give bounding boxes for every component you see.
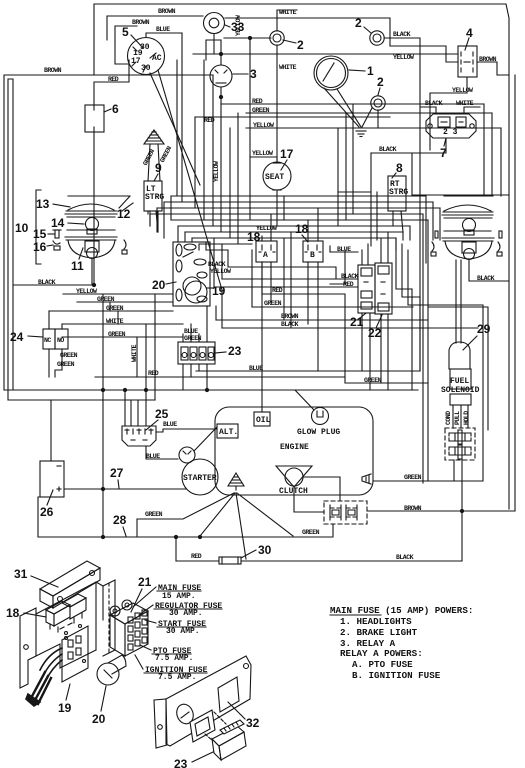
SECTION: bottom-right text <box>330 605 473 681</box>
engine box <box>215 407 373 495</box>
panel plate 32 <box>154 656 251 748</box>
svg-text:STARTER: STARTER <box>183 474 217 483</box>
label 32 <box>228 702 260 730</box>
svg-text:GREEN: GREEN <box>364 377 382 384</box>
wire mesh row3 <box>157 207 440 209</box>
spring 16 <box>53 241 60 250</box>
wire brown from relay4 <box>477 56 509 75</box>
center plate <box>103 580 115 656</box>
svg-text:25: 25 <box>155 407 169 421</box>
label 2a <box>283 38 304 52</box>
wire mesh left verticals <box>150 196 206 250</box>
label ignition fuse <box>135 655 208 682</box>
mounting plate base <box>36 582 103 668</box>
label 3 <box>233 67 257 81</box>
wire red bus y117 <box>195 117 390 124</box>
wire white down from 390 <box>390 46 458 62</box>
wire mesh row8 <box>192 237 396 239</box>
label 19 <box>58 684 72 715</box>
svg-text:3: 3 <box>250 67 257 81</box>
label 9 <box>154 161 162 181</box>
svg-text:32: 32 <box>246 716 260 730</box>
iso connector 19 <box>62 626 88 682</box>
wire fuse25 feeds <box>125 390 138 426</box>
svg-text:24: 24 <box>10 330 24 344</box>
label 20 <box>92 686 106 726</box>
bracket bar 31 <box>40 561 100 608</box>
label 19 <box>207 284 226 298</box>
wire right enclosure <box>428 305 483 481</box>
wire mesh row9 <box>199 243 252 245</box>
svg-text:YELLOW: YELLOW <box>452 87 473 94</box>
svg-text:1. HEADLIGHTS: 1. HEADLIGHTS <box>340 616 412 627</box>
svg-text:YELLOW: YELLOW <box>213 161 220 182</box>
label 14 <box>51 216 84 230</box>
wire 28 to bottom <box>175 537 177 561</box>
ground triangle above 9 <box>144 130 164 181</box>
svg-text:RED: RED <box>191 553 202 560</box>
wire white from hourmeter to right <box>225 18 390 46</box>
label 29 <box>463 322 491 350</box>
wire bus y390 <box>4 389 418 391</box>
wire red to 21 <box>214 281 358 288</box>
wire lamp top line <box>68 195 130 197</box>
svg-text:NO: NO <box>57 337 64 344</box>
wire top feed verticals <box>177 33 271 244</box>
svg-text:YELLOW: YELLOW <box>210 268 231 275</box>
label blue green above 23 <box>184 328 202 342</box>
svg-text:2: 2 <box>355 16 362 30</box>
label 18A <box>247 225 277 244</box>
svg-text:17: 17 <box>280 147 294 161</box>
svg-text:BLACK: BLACK <box>38 279 56 286</box>
wire black row 328 <box>222 290 478 328</box>
wire yellow seat <box>250 150 277 157</box>
svg-text:14: 14 <box>51 216 65 230</box>
wire white row324 <box>62 318 183 325</box>
svg-text:29: 29 <box>477 322 491 336</box>
svg-text:STRG: STRG <box>145 193 164 202</box>
svg-text:ALT.: ALT. <box>219 428 238 437</box>
svg-text:27: 27 <box>110 466 124 480</box>
svg-text:20: 20 <box>152 278 166 292</box>
iso fuse block 21 <box>110 600 148 656</box>
label 22 <box>368 315 382 340</box>
headlight circle 2b <box>370 31 384 45</box>
svg-text:GLOW PLUG: GLOW PLUG <box>297 428 340 437</box>
SECTION: bottom isometric <box>6 561 260 768</box>
svg-text:28: 28 <box>113 513 127 527</box>
legend line 1 <box>330 605 473 616</box>
svg-text:BROWN: BROWN <box>132 19 150 26</box>
wire red row 294 <box>262 262 345 377</box>
wire circle3 vertical <box>206 40 223 104</box>
wire staircase left <box>214 232 291 328</box>
svg-text:RED: RED <box>148 370 159 377</box>
label 4 <box>465 26 473 50</box>
svg-text:BLUE: BLUE <box>146 453 160 460</box>
wire yellow bus y128 <box>246 122 501 129</box>
connector 22 <box>375 263 392 314</box>
svg-text:7.5 AMP.: 7.5 AMP. <box>158 673 196 682</box>
engine right ground <box>362 474 371 484</box>
connector 23 <box>178 342 215 364</box>
svg-text:FUEL: FUEL <box>450 377 469 386</box>
wire bundle from 19 <box>26 648 62 706</box>
wire brown solenoid bottom <box>367 505 515 512</box>
wire right headlight black <box>469 259 509 282</box>
svg-text:B. IGNITION FUSE: B. IGNITION FUSE <box>352 670 441 681</box>
wire key switch left stub <box>115 42 128 64</box>
wire gauge grounds <box>324 88 372 127</box>
relay box 4 <box>458 46 477 77</box>
wire red into key switch <box>94 60 129 105</box>
svg-text:YELLOW: YELLOW <box>256 225 277 232</box>
wire starter diag <box>194 427 217 451</box>
wire blue bus y371 <box>196 365 420 372</box>
label 27 <box>110 466 124 488</box>
svg-text:10: 10 <box>15 221 29 235</box>
svg-text:GREEN: GREEN <box>106 305 124 312</box>
svg-text:BROWN: BROWN <box>158 8 176 15</box>
label 30 <box>241 543 272 558</box>
wire brown row 320 <box>216 306 428 320</box>
svg-text:YELLOW: YELLOW <box>76 288 97 295</box>
svg-text:GREEN: GREEN <box>60 352 78 359</box>
wire oil feed <box>261 371 263 412</box>
svg-text:YELLOW: YELLOW <box>252 150 273 157</box>
headlight circle 2a <box>270 31 284 45</box>
svg-text:7.5 AMP.: 7.5 AMP. <box>155 654 193 663</box>
svg-text:18: 18 <box>6 606 20 620</box>
svg-text:BLACK: BLACK <box>477 275 495 282</box>
gauge 1 <box>314 56 348 90</box>
svg-text:26: 26 <box>40 505 54 519</box>
right headlight bulb <box>444 219 491 236</box>
svg-text:30: 30 <box>258 543 272 557</box>
wire solenoid drops <box>453 405 468 428</box>
svg-text:ENGINE: ENGINE <box>280 443 309 452</box>
svg-text:19: 19 <box>58 701 72 715</box>
svg-text:BLACK: BLACK <box>396 554 414 561</box>
wire mesh row7 <box>185 231 403 233</box>
clutch dashed connector <box>324 501 367 524</box>
wire blue from key switch top <box>146 26 182 37</box>
SECTION: top components <box>85 9 509 290</box>
label 16 <box>33 240 53 254</box>
wire left drops to rows <box>103 294 155 537</box>
svg-text:BROWN: BROWN <box>44 67 62 74</box>
iso relay 18 left <box>46 601 70 632</box>
label 28 <box>113 513 127 536</box>
relay 18A <box>256 241 277 262</box>
label 31 <box>14 567 58 587</box>
rt strg lamp 8 <box>388 176 408 232</box>
oil switch <box>254 412 271 426</box>
wire white circle2a <box>277 9 297 31</box>
svg-text:YELLOW: YELLOW <box>235 15 242 36</box>
svg-text:PULL: PULL <box>454 411 461 425</box>
wire right staircase <box>396 238 428 390</box>
wire seat drop <box>277 196 284 226</box>
svg-text:SEAT: SEAT <box>265 173 284 182</box>
switch 24 <box>43 311 68 377</box>
svg-text:31: 31 <box>14 567 28 581</box>
wire black to 21 <box>222 273 359 280</box>
svg-text:WHITE: WHITE <box>279 64 297 71</box>
svg-text:2. BRAKE LIGHT: 2. BRAKE LIGHT <box>340 627 418 638</box>
label 11 <box>71 248 84 273</box>
svg-text:RED: RED <box>343 281 354 288</box>
svg-text:BLACK: BLACK <box>341 273 359 280</box>
label regulator fuse <box>139 602 222 618</box>
svg-text:21: 21 <box>138 575 152 589</box>
key switch 5 <box>128 38 165 75</box>
svg-text:RELAY A POWERS:: RELAY A POWERS: <box>340 648 423 659</box>
label 18B <box>295 222 309 242</box>
label 23 iso <box>174 752 213 768</box>
svg-text:RED: RED <box>272 287 283 294</box>
wire left border outer <box>4 75 107 390</box>
labels cond pull hold <box>445 411 470 425</box>
engine center ground <box>228 473 244 490</box>
svg-text:RED: RED <box>252 98 263 105</box>
label 18 iso <box>6 606 46 620</box>
wire black to regulator <box>420 100 443 114</box>
wire row 267 <box>228 250 336 279</box>
wire blue to 21 <box>330 246 358 253</box>
wire green row302 <box>77 296 173 303</box>
SECTION: lower schematic <box>4 75 515 564</box>
wire hourmeter down <box>213 34 215 54</box>
wire mesh row4 <box>150 213 423 215</box>
label 2b <box>355 16 371 33</box>
svg-text:WHITE: WHITE <box>131 344 138 362</box>
fuse 6 <box>85 105 104 132</box>
wire mesh row1 <box>171 195 426 197</box>
wire yellow below relay4 <box>430 77 473 150</box>
wire 27 battery to starter <box>64 487 186 490</box>
svg-text:23: 23 <box>174 757 188 768</box>
svg-text:11: 11 <box>71 259 84 273</box>
svg-text:BLUE: BLUE <box>249 365 263 372</box>
wire 28 battery ground <box>38 497 310 539</box>
label 1 <box>349 64 374 78</box>
label 17 <box>280 147 294 170</box>
svg-text:YELLOW: YELLOW <box>253 122 274 129</box>
svg-text:MAIN FUSE (15 AMP) POWERS:: MAIN FUSE (15 AMP) POWERS: <box>330 605 473 616</box>
svg-text:GREEN: GREEN <box>145 511 163 518</box>
svg-text:HOLD: HOLD <box>463 411 470 425</box>
wire clutch to connector <box>294 477 340 512</box>
fuel solenoid 29 <box>449 260 471 389</box>
wire green row311 <box>49 305 173 312</box>
left headlight bulb 14 <box>67 218 115 235</box>
label fuel solenoid <box>441 377 480 395</box>
wire white to regulator <box>456 100 480 114</box>
alternator <box>217 424 238 438</box>
svg-text:2 3: 2 3 <box>443 128 458 137</box>
battery 26 <box>40 461 64 497</box>
left bracket plate <box>20 608 36 688</box>
wire 23 tops <box>183 306 207 342</box>
svg-text:GREEN: GREEN <box>97 296 115 303</box>
svg-text:WHITE: WHITE <box>279 9 297 16</box>
left reflector 11 <box>65 237 127 259</box>
junction dots bus <box>101 388 208 391</box>
wire green clutch <box>302 524 333 537</box>
wire brown bus left <box>94 74 213 76</box>
wire mesh row6 <box>178 225 410 227</box>
relay 18B <box>303 241 323 262</box>
svg-text:BLACK: BLACK <box>379 146 397 153</box>
connector 21 <box>358 265 375 313</box>
wire bus y400 <box>8 399 155 401</box>
svg-text:YELLOW: YELLOW <box>393 54 414 61</box>
svg-text:BLUE: BLUE <box>163 421 177 428</box>
lt strg lamp 9 <box>144 181 164 232</box>
hour meter 33 <box>204 13 225 34</box>
svg-text:18: 18 <box>247 230 261 244</box>
SECTION: schematic borders <box>4 4 509 509</box>
svg-text:BLACK: BLACK <box>281 321 299 328</box>
wire glow plug feed <box>295 390 314 410</box>
iso relay 18 right <box>62 594 86 623</box>
svg-text:23: 23 <box>228 344 242 358</box>
wire mesh row5 <box>171 219 428 221</box>
svg-text:2: 2 <box>377 75 384 89</box>
label start fuse <box>145 620 206 636</box>
svg-text:13: 13 <box>36 197 50 211</box>
wire 21 22 tops <box>362 232 388 265</box>
bulb holder 15 <box>53 230 61 238</box>
clutch <box>276 466 312 496</box>
wire ground fan <box>137 493 293 559</box>
left headlight bracket 10 <box>36 190 41 264</box>
svg-text:2: 2 <box>297 38 304 52</box>
wire second border brown loop <box>107 8 203 40</box>
svg-text:18: 18 <box>295 222 309 236</box>
svg-text:WHITE: WHITE <box>106 318 124 325</box>
label 15 <box>33 227 55 241</box>
wire mesh row10 <box>206 249 228 251</box>
wire key switch diagonal to mesh A <box>150 73 200 185</box>
svg-text:BROWN: BROWN <box>404 505 422 512</box>
glow plug <box>297 408 340 438</box>
label 21 <box>350 313 366 329</box>
wire battery feed <box>50 400 52 461</box>
wire headlight feed line <box>432 194 509 196</box>
label 8 <box>392 161 403 178</box>
label 5 <box>122 25 143 48</box>
regulator 7 <box>426 114 476 138</box>
label 25 <box>146 407 169 430</box>
svg-text:GREEN: GREEN <box>108 331 126 338</box>
svg-text:BROWN: BROWN <box>479 56 497 63</box>
svg-text:8: 8 <box>396 161 403 175</box>
wire yellow row294 <box>63 288 173 295</box>
wire seat down <box>276 194 278 214</box>
label 12 <box>117 196 133 221</box>
wire right mesh verticals <box>338 56 501 483</box>
solenoid dashed connector <box>445 428 475 460</box>
wire key switch diagonal to mesh B <box>158 70 222 290</box>
fuse 30 <box>219 557 241 564</box>
wire fuse6 down <box>93 132 95 285</box>
svg-text:A: A <box>263 251 268 260</box>
wire green engine right <box>373 474 454 481</box>
connector block 19 20 <box>173 242 210 306</box>
SECTION: middle mesh <box>10 33 509 537</box>
wire green bus y383 <box>345 377 428 384</box>
label 2c <box>377 75 384 128</box>
svg-text:15: 15 <box>33 227 47 241</box>
svg-text:RED: RED <box>108 76 119 83</box>
meter circle 3 <box>210 65 232 87</box>
wire bottom black <box>176 553 462 561</box>
wire green row337 <box>62 331 183 338</box>
svg-text:16: 16 <box>33 240 47 254</box>
wire elbow right <box>412 153 432 195</box>
wire 23 bottoms <box>183 364 207 390</box>
svg-text:20: 20 <box>92 712 106 726</box>
wire black circle2b <box>384 31 420 56</box>
svg-text:5: 5 <box>122 25 129 39</box>
seat switch 17 <box>263 159 291 194</box>
brake circle 2c <box>371 96 385 110</box>
wire mesh row2 <box>164 201 433 203</box>
label main fuse <box>133 584 201 607</box>
iso connector 23 <box>205 712 246 760</box>
solenoid terminal box <box>450 394 471 405</box>
svg-text:BLUE: BLUE <box>156 26 170 33</box>
wire red bus y377 <box>95 370 345 377</box>
wire outer top border <box>94 4 509 509</box>
ground under gauge <box>353 128 369 137</box>
svg-text:GREEN: GREEN <box>302 529 320 536</box>
wire 21 22 bottoms <box>362 313 388 390</box>
right headlight top bar <box>444 195 493 197</box>
label 13 <box>36 197 70 211</box>
svg-text:BLUE: BLUE <box>337 246 351 253</box>
svg-text:GREEN: GREEN <box>264 300 282 307</box>
wire brown to key switch <box>115 19 150 42</box>
label pto fuse <box>140 645 193 663</box>
wire blue starter <box>146 446 178 460</box>
wire relay18 drops <box>262 208 318 371</box>
svg-text:GREEN: GREEN <box>404 474 422 481</box>
right reflector <box>431 231 502 260</box>
right headlight lens <box>442 205 493 218</box>
svg-text:BLACK: BLACK <box>393 31 411 38</box>
wire white circle2a down <box>277 45 297 162</box>
label 7 <box>440 138 447 160</box>
wire solenoid enclosure right <box>428 307 488 430</box>
wire solenoid down <box>454 460 464 561</box>
svg-text:6: 6 <box>112 102 119 116</box>
label 6 <box>104 102 119 116</box>
svg-text:B: B <box>310 251 315 260</box>
svg-text:GREEN: GREEN <box>252 107 270 114</box>
starter <box>179 447 218 495</box>
left headlight lens 13 <box>65 204 117 217</box>
svg-text:GREEN: GREEN <box>57 361 75 368</box>
label 20 <box>152 278 176 292</box>
label 26 <box>40 490 54 519</box>
label 23 <box>215 344 242 358</box>
label 33 <box>225 20 245 34</box>
label 21 <box>131 575 152 612</box>
